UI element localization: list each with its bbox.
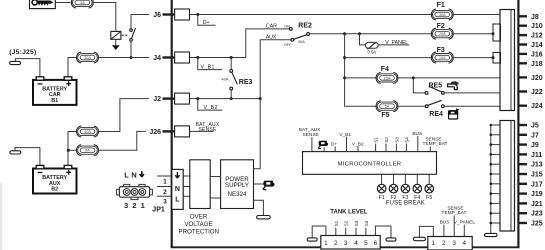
pin stub J20 xyxy=(520,76,528,78)
wire J2 net xyxy=(190,98,261,100)
svg-text:OVER: OVER xyxy=(190,214,208,221)
svg-text:J21: J21 xyxy=(531,201,543,208)
svg-text:ON: ON xyxy=(284,23,290,28)
micro input V_B1 xyxy=(339,132,351,152)
svg-text:5: 5 xyxy=(364,240,368,247)
svg-text:(J5:J25): (J5:J25) xyxy=(9,49,36,56)
pin stub J4 xyxy=(163,56,176,58)
relay RE3 contacts and blade xyxy=(230,70,238,91)
label power supply NE324 xyxy=(225,176,249,198)
fuse 5A (B2 to J26) xyxy=(77,145,99,156)
chassis terminal 4-pin connector xyxy=(413,237,425,240)
svg-text:J9: J9 xyxy=(531,142,539,149)
bus stub J13 xyxy=(491,163,500,165)
fuse-break lamp F4 xyxy=(413,174,422,201)
svg-text:15A: 15A xyxy=(439,55,446,60)
micro input S3 (rotated label) xyxy=(394,137,399,152)
battery B1 xyxy=(33,77,77,105)
svg-text:F1: F1 xyxy=(379,195,385,201)
micro input BUS xyxy=(412,131,422,151)
svg-text:D+: D+ xyxy=(331,141,337,147)
svg-text:15A: 15A xyxy=(384,75,391,80)
svg-text:SENSE: SENSE xyxy=(302,132,318,138)
wire power supply feed xyxy=(254,99,261,169)
tank level stub pin 2 (rotated label) xyxy=(334,220,339,235)
svg-text:F1: F1 xyxy=(437,2,445,9)
svg-text:4: 4 xyxy=(463,240,467,247)
chassis terminal tank right xyxy=(386,238,396,241)
page edge line xyxy=(0,183,2,250)
fuse F5 5A xyxy=(376,101,398,112)
svg-text:V_B2: V_B2 xyxy=(204,105,218,111)
appliance icon RE4 xyxy=(449,108,460,119)
svg-text:3: 3 xyxy=(124,201,128,210)
junction V_PANEL branch xyxy=(358,32,361,35)
pin box J4 xyxy=(175,52,190,63)
wire terminal to battery B1 minus xyxy=(15,59,40,78)
wire F2 to connector xyxy=(452,33,493,35)
wire to fuse F4 xyxy=(345,77,378,79)
pin stub J17 xyxy=(520,183,528,185)
relay RE4 contacts and blade xyxy=(425,100,444,107)
micro input S4 (rotated label) xyxy=(404,137,409,152)
pin stub J7 xyxy=(520,134,528,136)
svg-text:V_PANEL: V_PANEL xyxy=(385,40,408,46)
wire fuse 30A to J4 xyxy=(99,57,149,59)
svg-text:J19: J19 xyxy=(531,191,543,198)
pin stub J15 xyxy=(520,173,528,175)
junction V_B2 label xyxy=(196,97,199,100)
svg-text:6: 6 xyxy=(374,240,378,247)
pin stub J12 xyxy=(520,34,528,36)
wire J6 to RE1 switch xyxy=(131,15,149,29)
svg-text:F2: F2 xyxy=(437,23,445,30)
svg-text:RE5: RE5 xyxy=(429,82,443,89)
svg-text:CAR: CAR xyxy=(266,24,277,30)
svg-text:J2: J2 xyxy=(153,96,161,103)
wire to RE3 top contact xyxy=(230,58,232,70)
bus junction J7 xyxy=(490,134,493,137)
svg-text:MICROCONTROLLER: MICROCONTROLLER xyxy=(338,161,402,167)
svg-text:30A: 30A xyxy=(84,55,91,60)
svg-text:TEMP_BAT: TEMP_BAT xyxy=(442,210,467,216)
wire to 0.5A fuse xyxy=(360,34,366,45)
bus junction J11 xyxy=(490,153,493,156)
svg-text:L: L xyxy=(124,171,129,180)
relay RE5 contacts and blade xyxy=(425,86,444,94)
pin stub J13 xyxy=(520,163,528,165)
svg-text:TANK LEVEL: TANK LEVEL xyxy=(330,210,368,216)
svg-text:2: 2 xyxy=(132,201,136,210)
svg-text:20A: 20A xyxy=(439,31,446,36)
svg-text:1: 1 xyxy=(141,201,146,210)
svg-text:J25: J25 xyxy=(531,221,543,228)
connector block J8-J24 xyxy=(500,10,515,111)
JP1 pin stub 1 xyxy=(157,175,172,177)
bus stub J5 xyxy=(491,124,500,126)
svg-text:J22: J22 xyxy=(531,89,543,96)
bus junction J13 xyxy=(490,163,493,166)
bus junction J9 xyxy=(490,143,493,146)
svg-text:2: 2 xyxy=(442,240,446,247)
fuse 40A (B2 to J2) xyxy=(77,126,99,137)
4-pin connector box xyxy=(428,237,472,250)
stub pin 2 BUS xyxy=(443,225,445,237)
wire F5 to RE4 xyxy=(397,105,426,107)
svg-text:3: 3 xyxy=(344,240,348,247)
svg-text:J18: J18 xyxy=(531,61,543,68)
fuse F2 20A xyxy=(431,28,453,39)
wire F1 to connector xyxy=(452,14,500,16)
chassis terminal (J5:J25) xyxy=(10,61,21,64)
svg-text:N: N xyxy=(131,171,136,180)
fuse 30A (battery B1) xyxy=(77,52,99,63)
fuse F3 15A xyxy=(431,52,453,63)
tank level stub pin 5 (rotated label) xyxy=(364,220,369,235)
svg-text:SENSE: SENSE xyxy=(199,127,217,133)
ground terminal J5-J25 bus xyxy=(485,233,498,236)
bus junction J17 xyxy=(490,183,493,186)
svg-text:S3: S3 xyxy=(354,220,359,226)
connector JP1 plug icon xyxy=(117,184,153,199)
junction RE3 bottom on J2 xyxy=(230,97,233,100)
svg-text:V_B1: V_B1 xyxy=(201,65,215,71)
svg-text:RE3: RE3 xyxy=(239,79,253,86)
ignition key icon xyxy=(32,0,53,6)
junction D+ label xyxy=(196,13,199,16)
pin stub J8 xyxy=(520,15,528,17)
junction F3 wire xyxy=(343,56,346,59)
D+ label stub xyxy=(198,15,216,26)
junction V_B1 label xyxy=(196,56,199,59)
wire to fuse F3 xyxy=(345,57,433,59)
wire V_PANEL xyxy=(378,44,409,46)
bus junction J21 xyxy=(490,202,493,205)
svg-text:S4: S4 xyxy=(404,137,409,143)
svg-text:L: L xyxy=(175,196,180,203)
label over voltage protection xyxy=(179,214,220,236)
svg-text:3: 3 xyxy=(163,198,167,205)
svg-text:FUSE BREAK: FUSE BREAK xyxy=(386,201,425,207)
svg-text:F3: F3 xyxy=(437,47,445,54)
4-pin connector numbers xyxy=(432,240,467,247)
svg-text:BUS: BUS xyxy=(440,219,450,225)
tank level stub pin 4 (rotated label) xyxy=(354,220,359,235)
svg-text:S2: S2 xyxy=(384,137,389,143)
svg-text:40A: 40A xyxy=(298,39,305,44)
label SENSE TEMP_BAT at connector xyxy=(442,206,467,217)
bus stub J17 xyxy=(491,183,500,185)
junction F3 at connector xyxy=(492,56,495,59)
water pump icon RE5 xyxy=(448,81,459,89)
relay RE1 switch xyxy=(130,28,136,57)
micro input D+ xyxy=(331,141,337,151)
svg-text:F4: F4 xyxy=(381,66,389,73)
micro input S2 (rotated label) xyxy=(384,137,389,152)
pin stub J24 xyxy=(520,104,528,106)
bus stub J7 xyxy=(491,134,500,136)
tank level stub pin 3 (rotated label) xyxy=(344,220,349,235)
wire RE4 to J24 xyxy=(444,105,500,107)
junction AUX / power supply feed xyxy=(259,97,262,100)
svg-text:2: 2 xyxy=(163,189,167,196)
junction F3 branch xyxy=(343,32,346,35)
wire F4 to J20 xyxy=(397,77,500,79)
fuse F4 15A xyxy=(376,73,398,84)
svg-text:TEMP_BAT: TEMP_BAT xyxy=(423,141,448,147)
svg-text:JP1: JP1 xyxy=(152,206,165,213)
svg-text:N: N xyxy=(175,186,180,193)
JP1 pin stub 2 xyxy=(157,186,172,188)
ground terminal power supply xyxy=(257,216,271,219)
pin stub J18 xyxy=(520,62,528,64)
bus stub J11 xyxy=(491,153,500,155)
JP1 pin stub 3 xyxy=(157,195,172,197)
pin stub J16 xyxy=(520,53,528,55)
wire J6 net to fuse F1 xyxy=(190,14,433,16)
junction RE3 top xyxy=(230,56,233,59)
wire to RE5 xyxy=(413,78,425,93)
svg-text:3: 3 xyxy=(452,240,456,247)
tank level pin 1 to chassis xyxy=(312,226,326,238)
svg-text:J20: J20 xyxy=(531,75,543,82)
fuse-break lamp F5 xyxy=(425,174,434,201)
stub pin 3 SENSE xyxy=(453,216,455,237)
power supply box xyxy=(221,160,254,209)
bus stub J19 xyxy=(491,193,500,195)
svg-text:J5: J5 xyxy=(531,123,539,130)
battery B2 xyxy=(33,165,77,193)
fuse-break lamp F1 xyxy=(377,174,386,201)
wire RE2 common to fuse F2 xyxy=(310,33,433,35)
svg-text:J24: J24 xyxy=(531,103,543,110)
svg-text:J10: J10 xyxy=(531,23,543,30)
bus junction J5 xyxy=(490,124,493,127)
svg-text:S1: S1 xyxy=(334,220,339,226)
bus junction J23 xyxy=(490,212,493,215)
svg-text:AUX: AUX xyxy=(266,35,277,41)
pin stub J5 xyxy=(520,124,528,126)
micro input V_B2 xyxy=(352,141,364,151)
bus stub J21 xyxy=(491,202,500,204)
svg-text:PROTECTION: PROTECTION xyxy=(179,228,220,235)
wire F3 to connector xyxy=(452,57,493,59)
wire J26 BAT_AUX SENSE xyxy=(190,130,214,132)
svg-text:J13: J13 xyxy=(531,162,543,169)
module right border xyxy=(517,0,519,248)
bus stub J9 xyxy=(491,144,500,146)
ground bus J5-J25 xyxy=(490,125,492,233)
svg-text:V_B1: V_B1 xyxy=(339,132,351,138)
wire J4 net xyxy=(190,29,290,58)
svg-text:1: 1 xyxy=(324,240,328,247)
svg-text:J15: J15 xyxy=(531,172,543,179)
svg-text:1: 1 xyxy=(163,179,167,186)
micro input BAT_AUX SENSE xyxy=(299,127,321,151)
microcontroller box xyxy=(303,152,437,175)
svg-text:J6: J6 xyxy=(153,12,161,19)
pin stub J6 xyxy=(163,13,176,15)
junction B2 plus xyxy=(67,149,70,152)
svg-text:5A: 5A xyxy=(85,148,90,153)
svg-text:J8: J8 xyxy=(531,14,539,21)
svg-text:S3: S3 xyxy=(394,137,399,143)
wire AUX riser xyxy=(260,40,291,99)
pin 1 to chassis xyxy=(419,226,433,237)
svg-text:NE324: NE324 xyxy=(228,191,247,198)
junction RE1 switch to J4 wire xyxy=(130,56,133,59)
junction F2 at connector xyxy=(492,32,495,35)
pin stub J2 xyxy=(163,97,176,99)
svg-text:0.5A: 0.5A xyxy=(367,50,376,55)
pin box J26 xyxy=(175,126,190,137)
svg-text:5A: 5A xyxy=(385,104,390,109)
JP1 plug labels L N arrow xyxy=(124,171,144,180)
fuse-break lamp F2 xyxy=(389,174,398,201)
pin stub J22 xyxy=(520,90,528,92)
relay RE2 contacts and blade xyxy=(289,28,309,42)
wire fuse 5A to J26 xyxy=(99,131,146,150)
fuse 3A xyxy=(71,0,93,8)
bus stub J23 xyxy=(491,212,500,214)
wire terminal to battery B2 minus xyxy=(15,148,40,166)
wire battery B1 plus to fuse xyxy=(68,58,76,78)
svg-text:J4: J4 xyxy=(153,55,161,62)
svg-text:RE4: RE4 xyxy=(429,111,443,118)
V_B2 label stub xyxy=(198,99,223,111)
chassis terminal B2 minus xyxy=(10,151,21,154)
bus junction J15 xyxy=(490,173,493,176)
wire battery B2 plus up xyxy=(67,150,69,165)
svg-text:J17: J17 xyxy=(531,181,543,188)
wire power supply to ground xyxy=(254,200,264,215)
micro input SENSE TEMP_BAT xyxy=(423,136,448,151)
wire B2 to fuse 40A xyxy=(68,132,76,151)
svg-text:S1: S1 xyxy=(374,137,379,143)
label BAT_AUX SENSE at J26 xyxy=(196,122,220,133)
ground arrow for RE1 coil xyxy=(112,39,120,50)
wire key box to fuse F6 xyxy=(55,2,70,4)
pin stub J9 xyxy=(520,143,528,145)
junction RE5 branch xyxy=(412,76,415,79)
wire fuse 40A to J2 xyxy=(99,99,149,132)
svg-text:S4: S4 xyxy=(364,220,369,226)
fuse-break lamp F3 xyxy=(401,174,410,201)
JP1 internal connector box xyxy=(172,169,183,209)
bus junction J25 xyxy=(490,222,493,225)
pin stub J10 xyxy=(520,25,528,27)
key icon at power supply xyxy=(263,181,274,190)
svg-text:J11: J11 xyxy=(531,152,542,159)
wire RE3 bottom to J2 xyxy=(230,90,232,99)
JP1 internal labels xyxy=(175,172,180,203)
svg-text:J16: J16 xyxy=(531,51,543,58)
svg-text:2: 2 xyxy=(334,240,338,247)
wire B2 to fuse 5A xyxy=(68,149,76,151)
bus stub J15 xyxy=(491,173,500,175)
junction box J16-J18 xyxy=(493,53,501,64)
svg-text:J12: J12 xyxy=(531,33,543,40)
svg-text:D+: D+ xyxy=(203,20,210,26)
fuse F1 30A xyxy=(431,9,453,20)
pin box J2 xyxy=(175,93,190,104)
pin box J6 xyxy=(175,9,190,20)
svg-text:V_PANEL: V_PANEL xyxy=(454,219,476,225)
chassis terminal tank left xyxy=(307,238,317,241)
V_B1 label stub xyxy=(198,58,222,70)
pin stub J23 xyxy=(520,212,528,214)
pin stub J25 xyxy=(520,222,528,224)
svg-text:1: 1 xyxy=(432,240,436,247)
stub pin 4 V_PANEL xyxy=(463,225,465,237)
bus stub J25 xyxy=(491,222,500,224)
junction F4 wire xyxy=(343,76,346,79)
junction box J10-J12 xyxy=(493,24,501,41)
tank level pin 6 to chassis xyxy=(375,226,391,238)
svg-text:RE2: RE2 xyxy=(298,22,312,29)
relay RE1 coil-contact dashed link xyxy=(122,34,129,36)
wires OVP to power supply xyxy=(210,177,220,199)
svg-text:OFF: OFF xyxy=(284,42,293,47)
micro input S1 (rotated label) xyxy=(374,137,379,152)
svg-text:30A: 30A xyxy=(439,12,446,17)
svg-text:S2: S2 xyxy=(344,220,349,226)
wire F3 branch riser xyxy=(345,34,378,107)
bus junction J19 xyxy=(490,192,493,195)
svg-text:VOLTAGE: VOLTAGE xyxy=(184,221,212,228)
pin stub J21 xyxy=(520,202,528,204)
relay RE1 coil xyxy=(111,31,121,39)
tank level connector box xyxy=(321,236,380,250)
svg-text:J23: J23 xyxy=(531,211,543,218)
pin stub J11 xyxy=(520,153,528,155)
tank level pin numbers xyxy=(324,240,378,247)
micro input key icon xyxy=(319,141,329,152)
svg-text:B2: B2 xyxy=(51,187,58,193)
pin stub J26 xyxy=(163,130,176,132)
svg-text:4: 4 xyxy=(354,240,358,247)
svg-text:J14: J14 xyxy=(531,42,543,49)
fuse 0.5A xyxy=(365,42,378,49)
pin stub J19 xyxy=(520,192,528,194)
connector block J5-J25 xyxy=(500,121,515,232)
over voltage protection box xyxy=(190,160,210,209)
svg-text:B1: B1 xyxy=(51,98,58,104)
wire fuse to relay RE1 coil xyxy=(94,3,116,32)
svg-text:40A: 40A xyxy=(221,77,228,82)
module left border xyxy=(171,0,173,248)
svg-text:J7: J7 xyxy=(531,132,539,139)
svg-text:F5: F5 xyxy=(381,112,389,119)
wire RE5 to J22 xyxy=(444,92,500,94)
svg-text:3A: 3A xyxy=(80,0,85,5)
svg-text:F5: F5 xyxy=(426,195,432,201)
svg-text:SUPPLY: SUPPLY xyxy=(225,182,249,189)
stub power supply key output xyxy=(254,183,265,185)
JP1 plug pin numbers 3 2 1 xyxy=(124,201,146,210)
svg-text:40A: 40A xyxy=(84,129,91,134)
wires JP1 to OVP xyxy=(183,176,190,196)
module bottom border xyxy=(171,246,520,248)
ignition key box xyxy=(30,0,56,9)
pin stub J14 xyxy=(520,43,528,45)
svg-text:J26: J26 xyxy=(149,129,161,136)
